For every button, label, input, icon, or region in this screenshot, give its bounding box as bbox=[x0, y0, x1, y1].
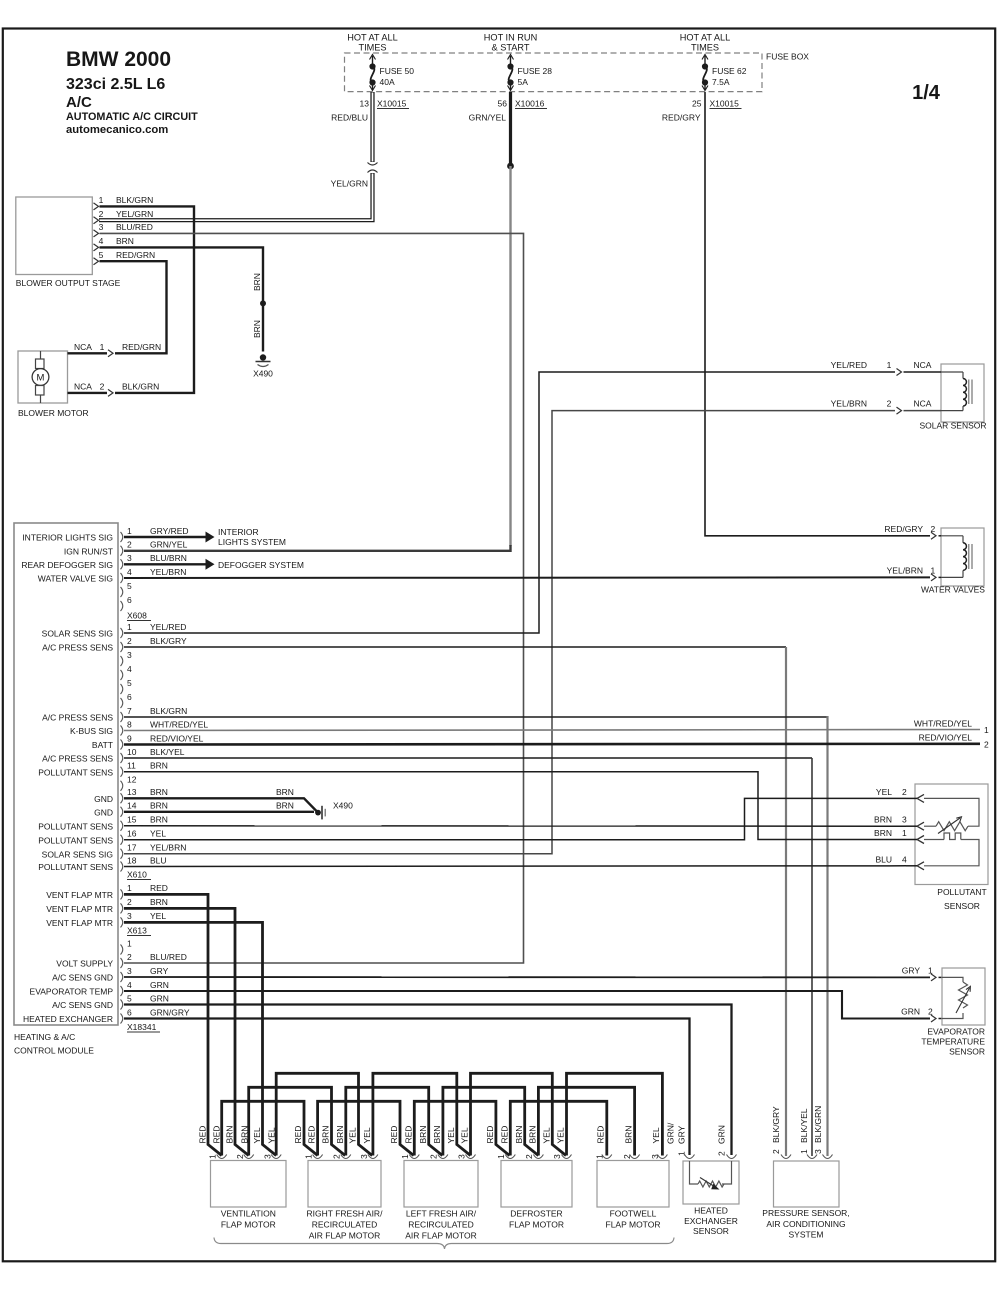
svg-text:RECIRCULATED: RECIRCULATED bbox=[408, 1220, 474, 1230]
module pin X608-5 bbox=[121, 581, 133, 597]
svg-text:X490: X490 bbox=[253, 369, 273, 379]
svg-text:14: 14 bbox=[127, 801, 137, 811]
connector X10015 pin 25 bbox=[692, 99, 741, 109]
svg-text:SYSTEM: SYSTEM bbox=[789, 1230, 824, 1240]
svg-text:VENT FLAP MTR: VENT FLAP MTR bbox=[46, 904, 113, 914]
svg-text:FOOTWELL: FOOTWELL bbox=[610, 1209, 657, 1219]
svg-text:25: 25 bbox=[692, 99, 702, 109]
svg-text:BLK/GRY: BLK/GRY bbox=[771, 1106, 781, 1143]
wire RED X613-1 to ventilation flap motor pin 1 bbox=[124, 894, 222, 1155]
svg-text:BRN: BRN bbox=[276, 787, 294, 797]
svg-text:3: 3 bbox=[902, 815, 907, 825]
svg-text:SOLAR SENSOR: SOLAR SENSOR bbox=[919, 421, 986, 431]
svg-text:3: 3 bbox=[127, 553, 132, 563]
svg-text:YEL/BRN: YEL/BRN bbox=[887, 565, 923, 575]
pollutant sensor pin 1 BRN bbox=[874, 828, 924, 844]
svg-text:EVAPORATOR TEMP: EVAPORATOR TEMP bbox=[30, 987, 114, 997]
svg-text:BLOWER OUTPUT STAGE: BLOWER OUTPUT STAGE bbox=[16, 278, 121, 288]
svg-text:2: 2 bbox=[429, 1154, 439, 1159]
ground X490 (blower circuit) bbox=[253, 354, 273, 378]
footwell flap motor bbox=[595, 1126, 669, 1230]
svg-text:1: 1 bbox=[127, 622, 132, 632]
svg-text:16: 16 bbox=[127, 829, 137, 839]
svg-text:RECIRCULATED: RECIRCULATED bbox=[312, 1220, 378, 1230]
svg-text:WHT/RED/YEL: WHT/RED/YEL bbox=[914, 718, 972, 728]
svg-text:FLAP MOTOR: FLAP MOTOR bbox=[221, 1220, 276, 1230]
svg-text:LIGHTS SYSTEM: LIGHTS SYSTEM bbox=[218, 537, 286, 547]
svg-text:1: 1 bbox=[928, 965, 933, 975]
svg-text:1: 1 bbox=[496, 1154, 506, 1159]
blower output stage pin 3 BLU/RED bbox=[94, 222, 153, 237]
svg-text:40A: 40A bbox=[380, 77, 395, 87]
wire RED bus ventilation to right-fresh-air motor bbox=[222, 1101, 318, 1155]
wire BRN bus defroster to footwell motor bbox=[538, 1087, 634, 1155]
svg-text:A/C SENS GND: A/C SENS GND bbox=[52, 973, 113, 983]
wire BLU X610-18 to pollutant sensor pin 4 bbox=[124, 865, 906, 868]
svg-text:RED/GRY: RED/GRY bbox=[884, 524, 923, 534]
svg-text:BLU/RED: BLU/RED bbox=[116, 222, 153, 232]
svg-text:4: 4 bbox=[127, 567, 132, 577]
svg-text:K-BUS SIG: K-BUS SIG bbox=[70, 726, 113, 736]
svg-text:6: 6 bbox=[127, 692, 132, 702]
svg-text:2: 2 bbox=[332, 1154, 342, 1159]
svg-text:13: 13 bbox=[127, 787, 137, 797]
svg-text:2: 2 bbox=[99, 209, 104, 219]
junction node on GRN/YEL wire bbox=[507, 163, 514, 170]
wire WHT/RED/YEL X610-8 to right edge pin 1 bbox=[124, 718, 989, 735]
module pin X608-6 bbox=[121, 595, 133, 611]
blower output stage bbox=[16, 197, 121, 288]
svg-text:A/C: A/C bbox=[66, 94, 92, 111]
svg-text:RED/VIO/YEL: RED/VIO/YEL bbox=[150, 733, 204, 743]
svg-text:YEL: YEL bbox=[267, 1127, 277, 1143]
svg-text:GRN/: GRN/ bbox=[666, 1122, 676, 1144]
water valves pin 2 RED/GRY label bbox=[884, 524, 941, 540]
svg-text:RED: RED bbox=[596, 1126, 606, 1144]
svg-text:BATT: BATT bbox=[92, 740, 113, 750]
svg-text:1: 1 bbox=[887, 360, 892, 370]
svg-text:12: 12 bbox=[127, 775, 137, 785]
wire BLK/GRN blower output stage pin1 to blower motor pin2 bbox=[100, 206, 195, 393]
svg-text:HEATED: HEATED bbox=[694, 1206, 728, 1216]
wire YEL/GRN from connector to blower output stage pin 2 (double line) bbox=[99, 173, 373, 220]
wire BRN X610-14 to ground X490 bbox=[124, 811, 314, 813]
fuse FUSE 28 5A bbox=[507, 55, 552, 91]
svg-text:HEATING & A/C: HEATING & A/C bbox=[14, 1032, 75, 1042]
svg-text:BRN: BRN bbox=[335, 1126, 345, 1144]
svg-text:YEL/GRN: YEL/GRN bbox=[116, 209, 153, 219]
heating & A/C control module bbox=[14, 523, 118, 1056]
svg-text:GRN/YEL: GRN/YEL bbox=[469, 113, 507, 123]
svg-text:RED: RED bbox=[485, 1126, 495, 1144]
svg-text:X10015: X10015 bbox=[377, 99, 407, 109]
svg-text:YEL: YEL bbox=[150, 911, 166, 921]
svg-text:BRN: BRN bbox=[150, 761, 168, 771]
svg-text:BRN: BRN bbox=[514, 1126, 524, 1144]
svg-text:BLK/GRY: BLK/GRY bbox=[150, 636, 187, 646]
svg-text:15: 15 bbox=[127, 815, 137, 825]
svg-text:RED: RED bbox=[403, 1126, 413, 1144]
wire RED/GRY from fuse 62 to water valves pin 2 bbox=[705, 92, 930, 536]
wire YEL X613-3 to ventilation flap motor pin 3 bbox=[124, 922, 276, 1155]
svg-text:POLLUTANT SENS: POLLUTANT SENS bbox=[38, 862, 113, 872]
svg-text:1: 1 bbox=[127, 526, 132, 536]
svg-text:BMW 2000: BMW 2000 bbox=[66, 48, 171, 71]
svg-text:A/C PRESS SENS: A/C PRESS SENS bbox=[42, 754, 113, 764]
module pin X613-3 YEL bbox=[121, 911, 167, 927]
svg-text:YEL: YEL bbox=[460, 1127, 470, 1143]
svg-text:RED: RED bbox=[293, 1126, 303, 1144]
svg-text:2: 2 bbox=[127, 952, 132, 962]
svg-text:YEL/RED: YEL/RED bbox=[831, 360, 867, 370]
svg-text:& START: & START bbox=[492, 43, 530, 53]
svg-text:M: M bbox=[37, 373, 45, 384]
wire GRY/RED X608-1 to interior lights system bbox=[124, 527, 286, 547]
svg-text:FLAP MOTOR: FLAP MOTOR bbox=[606, 1220, 661, 1230]
svg-text:BRN: BRN bbox=[252, 273, 262, 291]
wire YEL bus ventilation to right-fresh-air motor bbox=[276, 1073, 372, 1155]
svg-text:GRN: GRN bbox=[717, 1125, 727, 1144]
svg-text:1: 1 bbox=[99, 195, 104, 205]
svg-text:NCA: NCA bbox=[914, 360, 932, 370]
module pin X18341-2 BLU/RED bbox=[121, 952, 187, 968]
svg-text:RED: RED bbox=[307, 1126, 317, 1144]
svg-text:FLAP MOTOR: FLAP MOTOR bbox=[509, 1220, 564, 1230]
svg-text:2: 2 bbox=[127, 540, 132, 550]
heated exchanger sensor pin 2 GRN label bbox=[717, 1125, 737, 1158]
title block bbox=[66, 48, 198, 136]
wire RED/GRN blower output stage pin5 to blower motor pin1 bbox=[100, 261, 167, 353]
svg-text:2: 2 bbox=[984, 740, 989, 750]
svg-text:SOLAR SENS SIG: SOLAR SENS SIG bbox=[42, 849, 113, 859]
svg-text:BRN: BRN bbox=[276, 800, 294, 810]
module pin X608-3 BLU/BRN bbox=[121, 553, 187, 569]
pollutant sensor pin 2 YEL bbox=[876, 787, 924, 803]
svg-text:BLK/YEL: BLK/YEL bbox=[150, 747, 185, 757]
svg-text:10: 10 bbox=[127, 747, 137, 757]
svg-text:BRN: BRN bbox=[150, 801, 168, 811]
wire YEL/BRN module X610-17 to solar sensor pin 2 NCA bbox=[124, 399, 941, 854]
svg-text:AIR FLAP MOTOR: AIR FLAP MOTOR bbox=[309, 1231, 380, 1241]
svg-text:YEL/RED: YEL/RED bbox=[150, 622, 186, 632]
wire GRN X18341-5 to heated exchanger sensor pin 2 bbox=[124, 1005, 732, 1156]
svg-text:BLK/GRN: BLK/GRN bbox=[813, 1106, 823, 1143]
ground X490 (module GND pins) bbox=[315, 801, 353, 820]
svg-text:BLK/GRN: BLK/GRN bbox=[150, 706, 187, 716]
svg-text:RED: RED bbox=[211, 1126, 221, 1144]
module pin X608-1 GRY/RED bbox=[121, 526, 189, 542]
wire BRN bus ventilation to right-fresh-air motor bbox=[249, 1087, 346, 1155]
svg-text:A/C PRESS SENS: A/C PRESS SENS bbox=[42, 643, 113, 653]
svg-text:RED/GRY: RED/GRY bbox=[662, 113, 701, 123]
svg-text:YEL: YEL bbox=[541, 1127, 551, 1143]
svg-text:GND: GND bbox=[94, 807, 113, 817]
svg-text:3: 3 bbox=[99, 222, 104, 232]
svg-text:GND: GND bbox=[94, 794, 113, 804]
module pin X610-10 BLK/YEL bbox=[121, 747, 185, 763]
module pin X613-2 BRN bbox=[121, 897, 168, 913]
wire YEL/BRN module X608-4 to water valves pin 1 bbox=[124, 565, 941, 581]
svg-text:9: 9 bbox=[127, 733, 132, 743]
module pin X610-1 YEL/RED bbox=[121, 622, 187, 638]
wire BRN X610-15 to pollutant sensor pin 3 bbox=[124, 825, 906, 827]
module pin X610-3 bbox=[121, 650, 133, 666]
svg-text:AIR CONDITIONING: AIR CONDITIONING bbox=[766, 1219, 845, 1229]
connector X10015 pin 13 bbox=[360, 99, 409, 109]
svg-text:X490: X490 bbox=[333, 801, 353, 811]
svg-text:1: 1 bbox=[902, 828, 907, 838]
svg-text:2: 2 bbox=[902, 787, 907, 797]
svg-text:RIGHT FRESH AIR/: RIGHT FRESH AIR/ bbox=[307, 1209, 384, 1219]
svg-text:7: 7 bbox=[127, 706, 132, 716]
svg-text:HEATED EXCHANGER: HEATED EXCHANGER bbox=[23, 1014, 113, 1024]
svg-text:IGN RUN/ST: IGN RUN/ST bbox=[64, 546, 113, 556]
left fresh air/recirculated air flap motor bbox=[389, 1126, 478, 1241]
feed label HOT AT ALL TIMES at x=705 bbox=[680, 33, 731, 53]
svg-text:5: 5 bbox=[99, 250, 104, 260]
svg-text:HOT IN RUN: HOT IN RUN bbox=[484, 33, 537, 43]
svg-text:4: 4 bbox=[127, 664, 132, 674]
svg-text:BRN: BRN bbox=[239, 1126, 249, 1144]
svg-text:YEL: YEL bbox=[651, 1127, 661, 1143]
module pin X608-4 YEL/BRN bbox=[121, 567, 187, 583]
svg-text:2: 2 bbox=[100, 381, 105, 391]
svg-text:2: 2 bbox=[127, 636, 132, 646]
wire RED bus right-fresh-air to left-fresh-air motor bbox=[318, 1101, 414, 1155]
water valves bbox=[921, 528, 985, 595]
svg-text:BLK/YEL: BLK/YEL bbox=[799, 1108, 809, 1143]
svg-text:GRN/GRY: GRN/GRY bbox=[150, 1007, 190, 1017]
blower output stage pin 4 BRN bbox=[94, 236, 134, 251]
wire BRN blower output stage pin4 to ground X490 bbox=[100, 247, 264, 351]
svg-text:3: 3 bbox=[127, 911, 132, 921]
fuse FUSE 62 7.5A bbox=[702, 55, 747, 91]
wire YEL bus defroster to footwell motor bbox=[567, 1073, 663, 1155]
svg-text:RED: RED bbox=[150, 883, 168, 893]
svg-text:VOLT SUPPLY: VOLT SUPPLY bbox=[56, 959, 113, 969]
svg-text:5: 5 bbox=[127, 581, 132, 591]
connector X613 bbox=[127, 926, 151, 936]
svg-text:GRY: GRY bbox=[150, 966, 169, 976]
svg-text:BRN: BRN bbox=[874, 815, 892, 825]
blower motor pin 1 NCA RED/GRN bbox=[68, 342, 162, 357]
svg-text:18: 18 bbox=[127, 855, 137, 865]
svg-text:WATER VALVES: WATER VALVES bbox=[921, 585, 985, 595]
svg-text:BRN: BRN bbox=[116, 236, 134, 246]
svg-text:X10016: X10016 bbox=[515, 99, 545, 109]
svg-text:2: 2 bbox=[928, 1007, 933, 1017]
svg-text:YEL/GRN: YEL/GRN bbox=[331, 179, 368, 189]
svg-text:3: 3 bbox=[127, 650, 132, 660]
pollutant sensor pin 3 BRN bbox=[874, 815, 924, 831]
brace grouping flap motors bbox=[214, 1238, 674, 1250]
feed label HOT IN RUN & START at x=510.5 bbox=[484, 33, 537, 53]
svg-text:2: 2 bbox=[127, 897, 132, 907]
svg-text:RED/BLU: RED/BLU bbox=[331, 113, 368, 123]
pressure sensor pin 2 BLK/GRY label bbox=[771, 1106, 791, 1159]
module pin X610-6 bbox=[121, 692, 133, 708]
svg-text:X10015: X10015 bbox=[710, 99, 740, 109]
svg-text:INTERIOR LIGHTS SIG: INTERIOR LIGHTS SIG bbox=[22, 533, 113, 543]
svg-text:4: 4 bbox=[902, 854, 907, 864]
svg-text:1: 1 bbox=[127, 883, 132, 893]
svg-text:5: 5 bbox=[127, 993, 132, 1003]
connector X18341 bbox=[127, 1022, 160, 1032]
svg-text:automecanico.com: automecanico.com bbox=[66, 124, 168, 136]
svg-text:X18341: X18341 bbox=[127, 1022, 157, 1032]
evaporator temperature sensor bbox=[921, 968, 985, 1057]
blower output stage pin 1 BLK/GRN bbox=[94, 195, 154, 210]
svg-text:1/4: 1/4 bbox=[912, 82, 941, 104]
svg-text:FUSE 50: FUSE 50 bbox=[380, 66, 415, 76]
svg-text:TEMPERATURE: TEMPERATURE bbox=[921, 1037, 985, 1047]
fuse FUSE 50 40A bbox=[369, 55, 414, 91]
svg-text:TIMES: TIMES bbox=[691, 43, 719, 53]
wire GRN/YEL from junction to control module pin X608-2 bbox=[509, 166, 511, 546]
wire BRN X613-2 to ventilation flap motor pin 2 bbox=[124, 908, 249, 1155]
svg-text:WHT/RED/YEL: WHT/RED/YEL bbox=[150, 719, 208, 729]
module pin X610-11 BRN bbox=[121, 761, 168, 777]
module pin X610-17 YEL/BRN bbox=[121, 843, 187, 859]
svg-text:RED: RED bbox=[198, 1126, 208, 1144]
svg-text:GRY: GRY bbox=[677, 1125, 687, 1144]
svg-text:323ci 2.5L L6: 323ci 2.5L L6 bbox=[66, 76, 165, 93]
svg-text:BLK/GRN: BLK/GRN bbox=[116, 195, 153, 205]
module pin X608-2 GRN/YEL bbox=[121, 540, 188, 556]
svg-text:YEL: YEL bbox=[876, 787, 892, 797]
connector X608 bbox=[127, 611, 151, 621]
blower output stage pin 5 RED/GRN bbox=[94, 250, 156, 265]
svg-text:VENTILATION: VENTILATION bbox=[221, 1209, 276, 1219]
svg-text:BLU: BLU bbox=[875, 854, 892, 864]
svg-text:BRN: BRN bbox=[623, 1126, 633, 1144]
svg-text:SOLAR SENS SIG: SOLAR SENS SIG bbox=[42, 629, 113, 639]
pressure sensor pin 3 BLK/GRN label bbox=[813, 1106, 833, 1159]
svg-text:2: 2 bbox=[887, 399, 892, 409]
module pin X18341-1 bbox=[121, 938, 133, 954]
svg-text:BRN: BRN bbox=[150, 787, 168, 797]
pollutant sensor pin 4 BLU bbox=[875, 854, 924, 870]
svg-text:5A: 5A bbox=[518, 77, 529, 87]
svg-text:FUSE 62: FUSE 62 bbox=[712, 66, 747, 76]
wire RED bus defroster to footwell motor bbox=[510, 1101, 607, 1155]
svg-text:PRESSURE SENSOR,: PRESSURE SENSOR, bbox=[762, 1208, 849, 1218]
svg-text:RED/GRN: RED/GRN bbox=[122, 342, 161, 352]
svg-text:SENSOR: SENSOR bbox=[693, 1226, 729, 1236]
svg-text:REAR DEFOGGER SIG: REAR DEFOGGER SIG bbox=[21, 560, 113, 570]
wire GRN/GRY X18341-6 to heated exchanger sensor pin 1 bbox=[124, 1019, 690, 1156]
svg-text:BRN: BRN bbox=[874, 828, 892, 838]
svg-text:VENT FLAP MTR: VENT FLAP MTR bbox=[46, 918, 113, 928]
svg-text:3: 3 bbox=[813, 1149, 823, 1154]
svg-text:EVAPORATOR: EVAPORATOR bbox=[927, 1027, 985, 1037]
module pin X610-16 YEL bbox=[121, 829, 167, 845]
svg-text:1: 1 bbox=[304, 1154, 314, 1159]
defroster flap motor bbox=[485, 1126, 572, 1230]
svg-text:1: 1 bbox=[400, 1154, 410, 1159]
svg-text:1: 1 bbox=[984, 725, 989, 735]
module pin X610-14 BRN bbox=[121, 801, 168, 817]
module pin X18341-4 GRN bbox=[121, 980, 169, 996]
svg-text:8: 8 bbox=[127, 719, 132, 729]
svg-text:SENSOR: SENSOR bbox=[944, 901, 980, 911]
svg-text:INTERIOR: INTERIOR bbox=[218, 527, 259, 537]
svg-text:GRY: GRY bbox=[902, 965, 921, 975]
wire BRN bus left-fresh-air to defroster motor bbox=[443, 1087, 539, 1155]
module pin X18341-6 GRN/GRY bbox=[121, 1007, 190, 1023]
svg-text:1: 1 bbox=[799, 1149, 809, 1154]
module pin X610-13 BRN bbox=[121, 787, 168, 803]
wire BLK/GRN X610-7 to pressure sensor pin 3 bbox=[124, 716, 828, 718]
wire GRN/YEL from fuse 28 down to junction bbox=[509, 92, 512, 166]
svg-text:2: 2 bbox=[524, 1154, 534, 1159]
inline connector on fuse 50 wire bbox=[368, 163, 378, 173]
svg-text:RED: RED bbox=[499, 1126, 509, 1144]
wire GRN X18341-4 to evaporator temperature sensor pin 2 bbox=[124, 991, 942, 1022]
svg-text:X613: X613 bbox=[127, 926, 147, 936]
pressure sensor, air conditioning system bbox=[762, 1161, 849, 1240]
svg-text:EXCHANGER: EXCHANGER bbox=[684, 1216, 738, 1226]
module pin X610-15 BRN bbox=[121, 815, 168, 831]
module pin X610-7 BLK/GRN bbox=[121, 706, 188, 722]
svg-text:BRN: BRN bbox=[252, 320, 262, 338]
svg-text:GRN/YEL: GRN/YEL bbox=[150, 540, 188, 550]
svg-text:BLK/GRN: BLK/GRN bbox=[122, 381, 159, 391]
extra BRN labels near ground X490 (pins 13/14) bbox=[276, 787, 294, 810]
svg-text:NCA: NCA bbox=[74, 342, 92, 352]
svg-text:13: 13 bbox=[360, 99, 370, 109]
right fresh air/recirculated air flap motor bbox=[293, 1126, 383, 1241]
module pin X18341-5 GRN bbox=[121, 993, 169, 1009]
svg-text:VENT FLAP MTR: VENT FLAP MTR bbox=[46, 890, 113, 900]
svg-text:GRN: GRN bbox=[150, 993, 169, 1003]
svg-text:RED/GRN: RED/GRN bbox=[116, 250, 155, 260]
svg-text:6: 6 bbox=[127, 1007, 132, 1017]
svg-text:WATER VALVE SIG: WATER VALVE SIG bbox=[38, 574, 113, 584]
svg-text:YEL: YEL bbox=[252, 1127, 262, 1143]
svg-text:BLOWER MOTOR: BLOWER MOTOR bbox=[18, 408, 89, 418]
module pin X610-5 bbox=[121, 678, 133, 694]
module pin X613-1 RED bbox=[121, 883, 168, 899]
svg-text:A/C SENS GND: A/C SENS GND bbox=[52, 1000, 113, 1010]
module pin X18341-3 GRY bbox=[121, 966, 169, 982]
svg-text:LEFT FRESH AIR/: LEFT FRESH AIR/ bbox=[406, 1209, 477, 1219]
svg-text:CONTROL MODULE: CONTROL MODULE bbox=[14, 1046, 94, 1056]
module pin X610-12 bbox=[121, 775, 137, 791]
svg-text:GRY/RED: GRY/RED bbox=[150, 526, 189, 536]
svg-text:3: 3 bbox=[552, 1154, 562, 1159]
svg-text:TIMES: TIMES bbox=[358, 43, 386, 53]
svg-text:DEFROSTER: DEFROSTER bbox=[510, 1209, 562, 1219]
svg-text:BLU: BLU bbox=[150, 855, 167, 865]
svg-text:BRN: BRN bbox=[225, 1126, 235, 1144]
svg-text:BRN: BRN bbox=[432, 1126, 442, 1144]
svg-text:11: 11 bbox=[127, 761, 136, 771]
pressure sensor pin 1 BLK/YEL label bbox=[799, 1108, 817, 1158]
svg-text:HOT AT ALL: HOT AT ALL bbox=[680, 33, 731, 43]
module pin X610-4 bbox=[121, 664, 133, 680]
wire YEL bus left-fresh-air to defroster motor bbox=[471, 1073, 567, 1155]
wire GRY X18341-3 to evaporator temperature sensor pin 1 bbox=[124, 965, 942, 981]
wire RED bus left-fresh-air to defroster motor bbox=[414, 1101, 509, 1155]
pollutant sensor bbox=[915, 784, 988, 911]
svg-text:1: 1 bbox=[100, 342, 105, 352]
fuse box (dashed) bbox=[345, 52, 810, 92]
svg-text:2: 2 bbox=[771, 1149, 781, 1154]
blower motor pin 2 NCA BLK/GRN bbox=[68, 381, 160, 396]
svg-text:YEL: YEL bbox=[362, 1127, 372, 1143]
blower output stage pin 2 YEL/GRN bbox=[94, 209, 154, 224]
